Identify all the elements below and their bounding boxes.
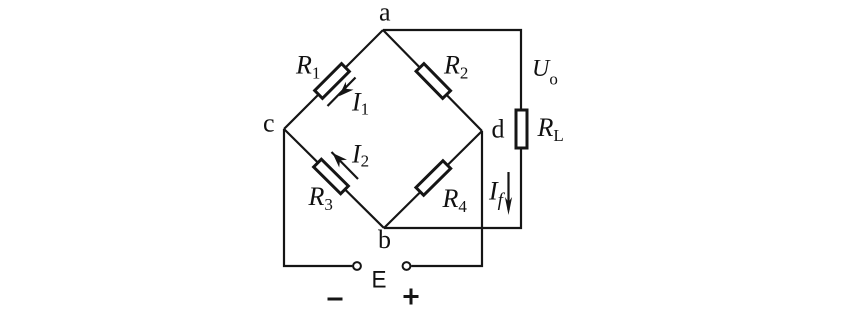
resistor R1 body <box>315 64 350 99</box>
wire a to top-right corner and down to b rail (RL branch) <box>383 30 521 228</box>
svg-text:If: If <box>488 177 506 212</box>
svg-text:R1: R1 <box>295 51 320 83</box>
svg-text:b: b <box>378 225 391 254</box>
svg-text:R4: R4 <box>442 184 468 216</box>
battery minus sign <box>328 298 343 301</box>
resistor R2 body <box>416 64 450 99</box>
wire d to b (bridge arm lower-right) <box>384 131 482 228</box>
current arrow I1 (points down-left along R1) <box>328 78 356 107</box>
battery plus sign <box>404 289 419 305</box>
svg-text:c: c <box>263 109 275 138</box>
wire c down to battery minus terminal <box>284 129 352 266</box>
svg-text:I2: I2 <box>351 140 369 171</box>
svg-text:R3: R3 <box>308 182 333 214</box>
battery terminal circle minus <box>353 262 361 270</box>
resistor R3 body <box>314 159 349 194</box>
svg-text:E: E <box>372 267 387 294</box>
wire battery plus terminal to d <box>411 131 482 266</box>
svg-text:RL: RL <box>537 113 564 145</box>
resistor RL body <box>516 110 527 148</box>
wire c to b (bridge arm lower-left) <box>284 129 384 228</box>
svg-text:a: a <box>379 0 391 27</box>
wire a to d (bridge arm upper-right) <box>383 30 482 131</box>
svg-text:R2: R2 <box>443 51 468 83</box>
svg-text:d: d <box>492 115 505 144</box>
battery terminal circle plus <box>403 262 411 270</box>
current arrow I2 (points up-left along R3) <box>329 149 358 179</box>
resistor R4 body <box>416 161 451 196</box>
svg-text:Uo: Uo <box>532 56 558 89</box>
current arrow If (points down) <box>505 172 512 215</box>
svg-text:I1: I1 <box>351 88 369 119</box>
wire a to c (bridge arm upper-left) <box>284 30 383 129</box>
